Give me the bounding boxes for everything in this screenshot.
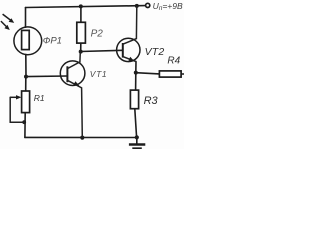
transistor VT1 emitter with arrow	[67, 80, 82, 137]
node dot rail-VT2 collector	[135, 4, 139, 8]
node dot R1 wiper return	[22, 120, 26, 124]
wire wiper return vertical	[9, 97, 11, 122]
wire emitter node to R4	[136, 73, 160, 74]
wire top supply rail	[26, 6, 146, 8]
wire ground stem	[136, 137, 138, 143]
wire R2 top lead from rail	[80, 6, 82, 22]
transistor VT1 circle	[60, 61, 85, 86]
wire R4 right stub to edge	[181, 73, 184, 75]
svg-text:R3: R3	[144, 95, 159, 107]
svg-text:VT1: VT1	[90, 69, 107, 79]
wire R3 top lead	[135, 73, 137, 91]
wire R1 bottom lead to bottom rail corner	[24, 113, 26, 138]
transistor VT2 emitter with arrow	[123, 57, 136, 62]
transistor VT1 collector	[67, 52, 80, 69]
node dot rail-R2	[79, 4, 83, 8]
wire collector node to VT2 base	[81, 50, 123, 51]
light arrow 2	[1, 21, 10, 30]
wire left vertical from rail to photoresistor	[25, 8, 27, 28]
svg-text:ФР1: ФР1	[43, 36, 62, 47]
resistor R1 body (potentiometer)	[22, 91, 30, 113]
light arrow 1	[3, 14, 15, 23]
photoresistor FR1 body rect	[22, 30, 30, 49]
wire base node to VT1 base	[26, 75, 67, 78]
terminal +9V open circle	[146, 3, 150, 7]
node dot VT2 emitter / R3 / R4	[134, 71, 138, 75]
transistor VT1 base bar	[66, 66, 68, 82]
resistor R2 body	[77, 22, 86, 43]
node dot base node	[24, 75, 28, 79]
svg-text:Uп=+9В: Uп=+9В	[153, 1, 183, 12]
svg-text:R4: R4	[167, 55, 180, 66]
transistor VT2 circle	[117, 38, 140, 61]
node dot R2-VT2 base	[79, 50, 83, 54]
wire R1 top lead	[25, 77, 27, 91]
wire wiper return horizontal	[10, 121, 24, 123]
ground symbol bars	[129, 145, 145, 149]
resistor R4 body	[159, 71, 181, 77]
wire VT2 emitter node down	[135, 62, 137, 73]
wire R2 bottom lead to collector node	[80, 43, 82, 52]
wire bottom ground rail	[25, 136, 137, 138]
resistor R3 body	[130, 90, 138, 109]
svg-text:R1: R1	[34, 93, 45, 103]
svg-text:P2: P2	[91, 28, 104, 39]
wire photoresistor bottom to base node	[25, 54, 27, 76]
node dot VT1 emitter at rail	[80, 136, 84, 140]
transistor VT2 base bar	[122, 43, 124, 58]
transistor VT2 collector	[123, 6, 137, 44]
R1 wiper arrow	[10, 95, 21, 99]
wire R3 bottom lead to rail	[135, 109, 137, 138]
photoresistor FR1 circle	[14, 27, 42, 55]
svg-text:VT2: VT2	[145, 46, 165, 58]
node dot R3 at rail / ground	[135, 135, 139, 139]
